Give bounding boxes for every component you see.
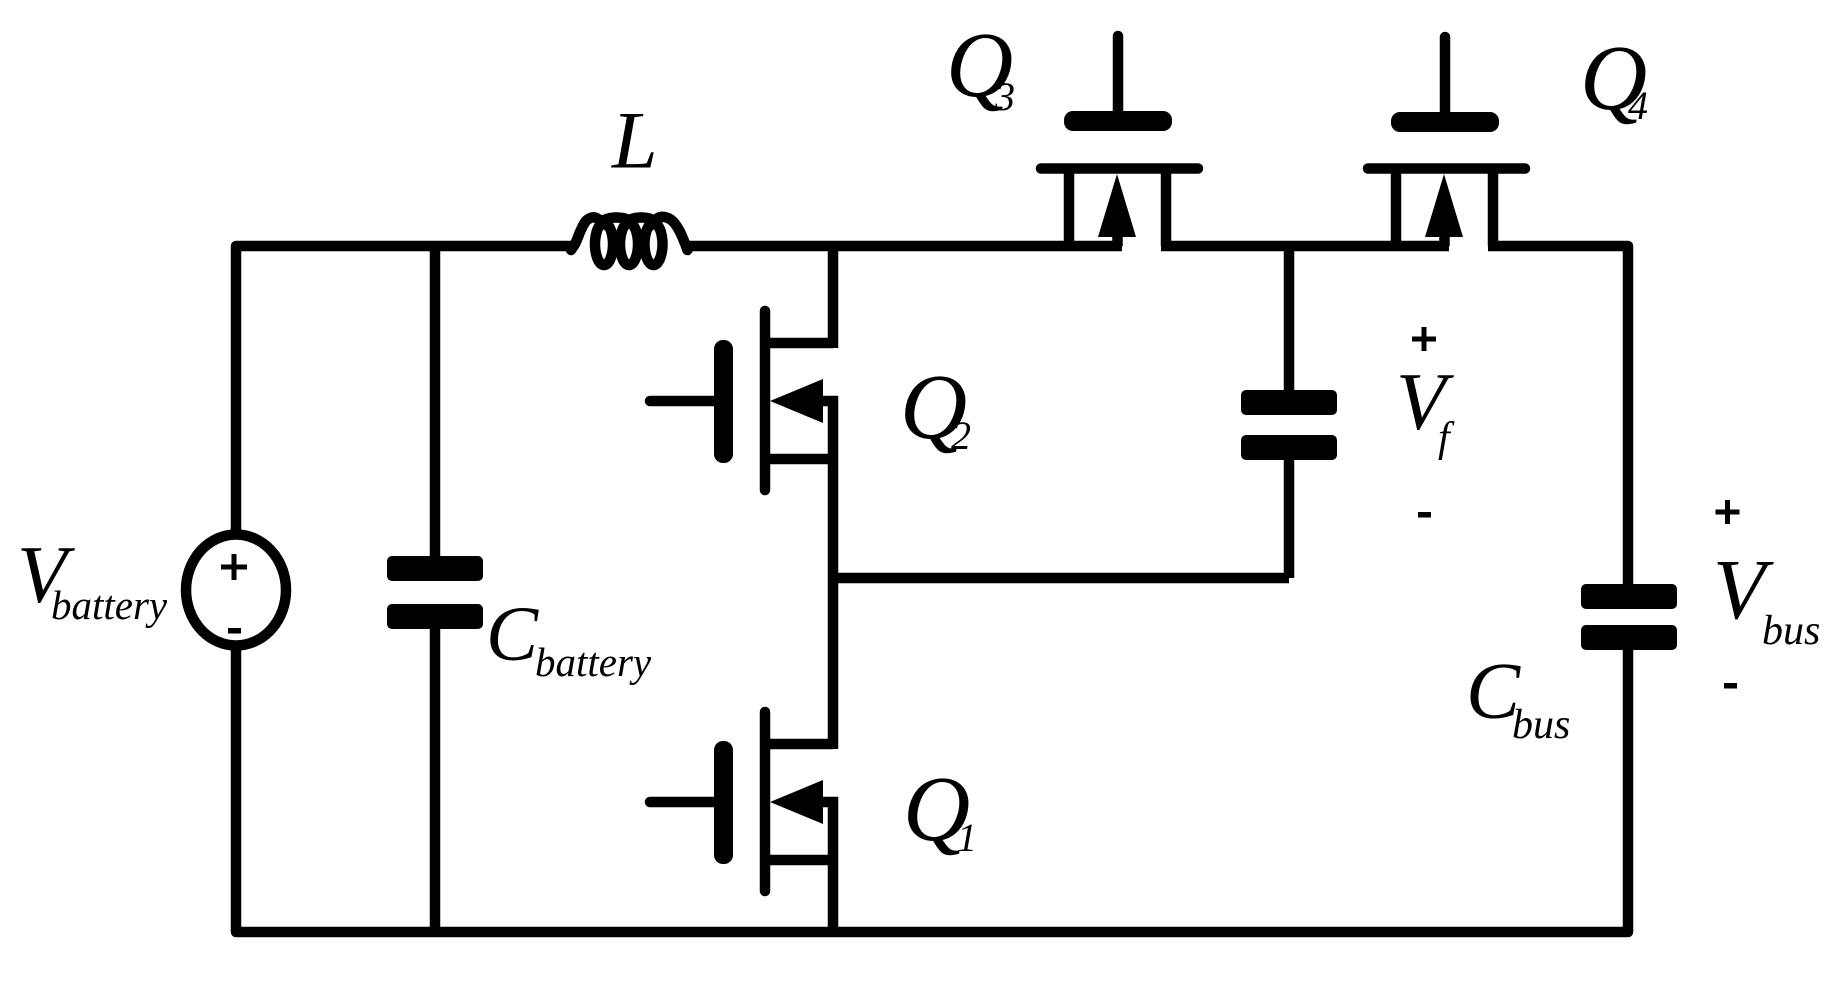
Q4 gate bar [1391, 112, 1499, 132]
Q4 gate lead [1440, 37, 1451, 112]
capacitor C_battery plate top [387, 556, 483, 581]
Q2 channel [760, 311, 771, 490]
Q2 drain branch [765, 338, 833, 349]
Q1 body diode arrow [770, 780, 823, 824]
svg-text:bus: bus [1512, 702, 1570, 748]
Q2 gate lead [650, 396, 714, 407]
Q1 body lead [823, 797, 838, 808]
svg-text:C: C [486, 590, 539, 677]
wire top segment C + right rail upper [1488, 246, 1628, 584]
V_f plus sign [1412, 327, 1436, 351]
svg-text:battery: battery [51, 582, 168, 628]
V_battery minus [228, 628, 241, 634]
wire top segment A right of inductor [684, 241, 1122, 252]
transistor Q2 [650, 311, 838, 490]
V_battery plus [221, 554, 247, 580]
Q2 gate bar [714, 340, 733, 463]
Q1 channel [760, 712, 771, 891]
capacitor C_bus plate bottom [1581, 625, 1677, 650]
svg-text:L: L [611, 95, 658, 186]
Q1 drain branch [765, 739, 833, 750]
svg-text:1: 1 [957, 815, 977, 860]
wire C_battery stem lower [430, 629, 441, 932]
Q3 gate bar [1064, 111, 1172, 131]
Q2 body diode arrow [770, 379, 823, 423]
wire C_battery stem upper [430, 246, 441, 556]
svg-text:battery: battery [535, 639, 652, 685]
Q3 source stub [1064, 173, 1075, 246]
Q1 gate lead [650, 797, 714, 808]
voltage source V_battery circle [186, 535, 286, 646]
Q3 gate lead [1113, 36, 1124, 111]
svg-text:3: 3 [994, 74, 1015, 119]
V_f minus sign [1418, 512, 1431, 518]
svg-text:bus: bus [1762, 608, 1820, 654]
wire middle node [828, 573, 1289, 584]
Q4 source stub [1391, 173, 1402, 246]
wire top-left corner run [236, 246, 575, 534]
wire mid column Q2 drain [828, 241, 839, 348]
Q4 body stem [1439, 237, 1450, 246]
Q4 body diode arrow [1425, 174, 1463, 237]
Q3 drain stub [1161, 173, 1172, 246]
wire mid column Q1 source [828, 797, 839, 932]
capacitor C_bus plate top [1581, 584, 1677, 609]
capacitor C_battery plate bottom [387, 604, 483, 629]
Q3 body diode arrow [1098, 174, 1136, 237]
Q2 body lead [823, 396, 838, 407]
Q1 source branch [765, 855, 833, 866]
transistor Q3 [1041, 36, 1198, 246]
wire top segment B [1161, 241, 1449, 252]
wire left rail lower + bottom + right rail lower [236, 646, 1628, 932]
V_bus minus sign [1724, 683, 1737, 689]
transistor Q4 [1368, 37, 1525, 246]
Q1 gate bar [714, 741, 733, 864]
Q4 drain stub [1488, 173, 1499, 246]
Q4 channel [1368, 163, 1525, 174]
capacitor V_f plate bottom [1241, 435, 1337, 460]
svg-text:2: 2 [951, 413, 971, 458]
wire V_f stem upper [1284, 246, 1295, 390]
svg-text:4: 4 [1628, 83, 1648, 128]
wire V_f stem lower [1284, 460, 1295, 578]
svg-text:f: f [1438, 415, 1455, 461]
Q2 source branch [765, 454, 833, 465]
Q3 channel [1041, 163, 1198, 174]
wire mid column Q2 source to Q1 drain [828, 396, 839, 749]
Q3 body stem [1112, 237, 1123, 246]
transistor Q1 [650, 712, 838, 891]
V_bus plus sign [1716, 500, 1740, 524]
capacitor V_f plate top [1241, 390, 1337, 415]
inductor L [571, 217, 688, 265]
